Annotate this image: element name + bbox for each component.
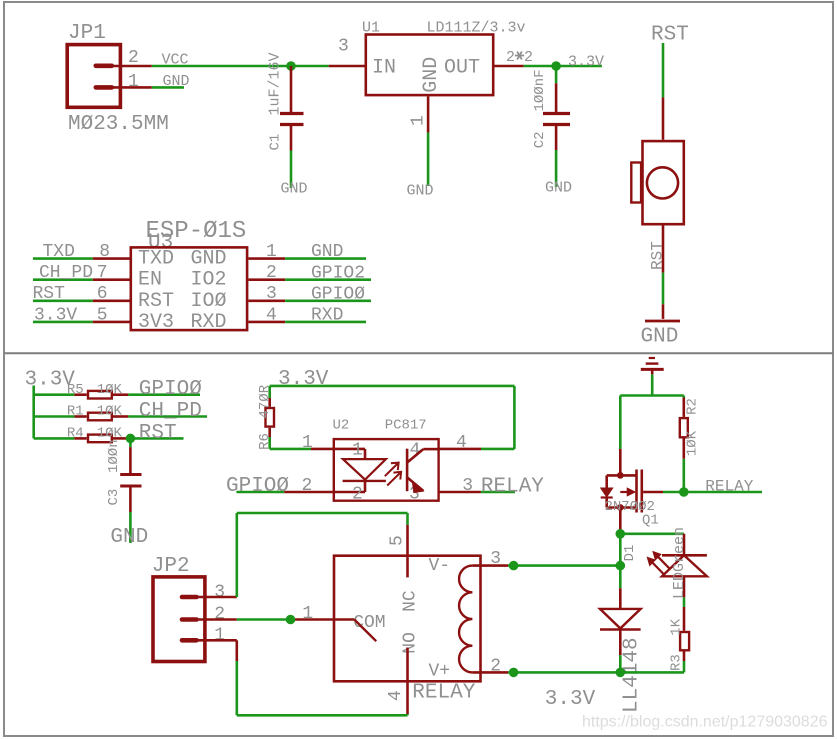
svg-text:RST: RST [33, 284, 66, 304]
wire U3 right pin 1 net GND [248, 257, 366, 260]
svg-text:D1: D1 [622, 545, 638, 562]
capacitor C1 [267, 52, 304, 150]
svg-text:1K: 1K [668, 618, 684, 635]
connector JP2 [152, 555, 205, 662]
svg-text:C1: C1 [268, 134, 284, 151]
pushbutton switch RST [631, 141, 684, 224]
U3 pin 1 number [266, 242, 277, 262]
wire Q1 source to LED column [620, 532, 684, 535]
wire JP2 pin3 to relay pin5 [197, 513, 408, 597]
svg-text:3.3V: 3.3V [278, 368, 329, 391]
svg-text:5: 5 [388, 535, 408, 546]
svg-text:JP1: JP1 [68, 22, 106, 45]
wire switch to GND [662, 226, 665, 319]
net label RST [139, 422, 177, 445]
net label RST top [651, 24, 689, 47]
wire RST to switch [662, 43, 665, 140]
net label GPIO0 at opto [226, 475, 289, 498]
svg-text:3.3V: 3.3V [545, 688, 596, 711]
supply GND under U1 [407, 183, 434, 200]
node JP2 pin2 junction [286, 615, 296, 625]
U3 pin 2 number [266, 263, 277, 283]
section divider line [4, 352, 833, 354]
net label 3.3V bottom [545, 688, 596, 711]
svg-text:NC: NC [401, 590, 421, 612]
led LED1 LEDGreen [647, 527, 707, 599]
svg-text:2: 2 [302, 476, 313, 496]
wire rail down to Q1 drain [619, 396, 622, 476]
U3 pin 6 number [97, 284, 108, 304]
svg-text:4: 4 [456, 433, 467, 453]
svg-text:1: 1 [302, 433, 313, 453]
svg-text:RST: RST [649, 241, 667, 270]
node 3.3V junction at C2 [551, 61, 561, 71]
net label GPIO2 [311, 263, 365, 283]
svg-text:GND: GND [545, 180, 572, 197]
svg-text:RST: RST [651, 24, 689, 47]
wire relay coil pin 3 (V-) [472, 564, 620, 567]
svg-text:GND: GND [407, 183, 434, 200]
svg-text:LEDGreen: LEDGreen [671, 527, 688, 599]
svg-text:RST: RST [138, 290, 174, 313]
net label CH_PD [139, 400, 202, 423]
svg-text:IO2: IO2 [191, 269, 227, 292]
U1 pin 3 number [338, 37, 349, 57]
capacitor C2 [532, 66, 570, 150]
wire earth to gate rail [620, 374, 684, 395]
svg-text:1ØK: 1ØK [685, 430, 701, 456]
wire VCC: JP1 pin2 to U1 IN [112, 65, 365, 68]
wire C2 to GND [555, 150, 558, 187]
svg-text:U2: U2 [333, 418, 350, 434]
svg-text:IOØ: IOØ [191, 290, 227, 313]
svg-text:GND: GND [110, 526, 148, 549]
wire U3 right pin 3 net GPIOØ [248, 299, 371, 302]
opto U2 pin 1 number [302, 433, 313, 453]
svg-text:3: 3 [214, 583, 225, 603]
svg-text:EN: EN [138, 269, 162, 292]
wire Q1 source down to D1 [619, 534, 622, 566]
svg-text:2: 2 [506, 49, 515, 66]
svg-text:R2: R2 [684, 398, 700, 415]
Q1 name [642, 513, 659, 529]
resistor R1 10K [34, 404, 129, 421]
supply GND under C3 [110, 526, 148, 549]
svg-text:CH_PD: CH_PD [39, 263, 93, 283]
wire U3 right pin 2 net GPIO2 [248, 278, 371, 281]
wire U3 right pin 4 net RXD [248, 321, 366, 324]
svg-text:2: 2 [524, 49, 533, 66]
svg-text:RELAY: RELAY [412, 682, 475, 705]
svg-text:RELAY: RELAY [705, 478, 753, 496]
svg-text:V-: V- [429, 556, 451, 576]
wire net GPIOØ [128, 393, 200, 396]
wire U3 left pin 6 net RST [33, 299, 130, 302]
svg-text:C3: C3 [106, 489, 122, 506]
U3 pin 8 number [99, 242, 110, 262]
wire JP2 pin1 to relay pin4 [197, 640, 408, 715]
net label 3.3V top [568, 54, 604, 71]
relay NC contact pin 5 [406, 513, 409, 577]
node RELAY junction [679, 487, 689, 497]
svg-text:https://blog.csdn.net/p1279030: https://blog.csdn.net/p1279030826 [582, 714, 828, 731]
svg-text:TXD: TXD [138, 248, 174, 271]
U2 phototransistor [407, 449, 439, 493]
svg-text:1ØØnF: 1ØØnF [532, 69, 548, 111]
svg-text:3: 3 [462, 476, 473, 496]
svg-text:GND: GND [420, 57, 443, 93]
svg-text:V+: V+ [429, 662, 451, 682]
net name RST rotated [649, 241, 667, 270]
svg-text:U1: U1 [362, 20, 380, 37]
svg-text:2: 2 [214, 605, 225, 625]
svg-text:2: 2 [490, 657, 501, 677]
svg-text:GPIO2: GPIO2 [311, 263, 365, 283]
svg-text:7: 7 [97, 263, 108, 283]
svg-text:JP2: JP2 [152, 555, 190, 578]
net label GPIOØ [311, 284, 365, 304]
svg-text:GND: GND [191, 248, 227, 271]
wire LED to R3 [683, 597, 686, 630]
capacitor C3 [106, 438, 142, 512]
wire U3 left pin 8 net TXD [33, 257, 130, 260]
svg-text:RST: RST [139, 422, 177, 445]
regulator U1 LD111Z/3.3v [362, 20, 526, 96]
diode D1 LL4148 [600, 545, 644, 713]
wire net GPIO0 to U2 pin 2 [236, 491, 332, 494]
svg-text:GND: GND [641, 326, 679, 349]
U2 LED emission arrows [385, 463, 401, 486]
wire net RELAY right [684, 491, 762, 494]
wire R3 to 3.3V rail [683, 661, 686, 672]
svg-text:47ØR: 47ØR [257, 384, 273, 418]
svg-text:Q1: Q1 [642, 513, 659, 529]
JP2 pin 2 number [214, 605, 225, 625]
svg-text:4: 4 [266, 305, 277, 325]
Q1 value 2N7002 [605, 499, 655, 515]
optocoupler U2 PC817 [333, 418, 439, 501]
wire U3 left pin 7 net CH_PD [33, 278, 130, 281]
wire R2 to RELAY node [682, 459, 685, 492]
svg-text:1: 1 [302, 604, 313, 624]
svg-text:GPIOØ: GPIOØ [139, 378, 202, 401]
svg-text:CH_PD: CH_PD [139, 400, 202, 423]
wire R6 to opto pin 1 [270, 437, 333, 449]
svg-text:R5: R5 [67, 382, 84, 398]
net label RELAY at Q1 [705, 478, 753, 496]
U2 pin 3 number [462, 476, 473, 496]
wire C3 to GND [129, 512, 132, 543]
U3 pin 4 number [266, 305, 277, 325]
net label 3.3V at opto rail [278, 368, 329, 391]
wire U2 pin 4 to rail [439, 448, 515, 451]
resistor R6 470R [257, 384, 274, 450]
transistor Q1 2N7002 [601, 470, 642, 534]
svg-text:3: 3 [338, 37, 349, 57]
wire 3.3V rail to opto pin4 [270, 386, 515, 449]
node junction R4/C3 [126, 434, 136, 444]
net label CH_PD [39, 263, 93, 283]
relay pin 1 number [302, 604, 313, 624]
net label TXD [43, 242, 75, 262]
svg-text:4: 4 [386, 690, 406, 701]
U2 inside pin name 2 [352, 485, 363, 505]
wire 3.3V vertical bottom-left [32, 386, 35, 439]
svg-text:2: 2 [352, 485, 363, 505]
relay pin 4 number [386, 690, 406, 701]
U2 pin 2 number [302, 476, 313, 496]
connector JP1 [67, 22, 169, 136]
wire D1 to 3.3V rail [619, 655, 622, 672]
svg-text:IN: IN [372, 57, 396, 80]
resistor R3 1K [668, 618, 689, 671]
wire JP2 pin2 to relay COM [197, 618, 291, 621]
node relay pin2 junction [509, 668, 519, 678]
svg-text:5: 5 [97, 305, 108, 325]
svg-text:OUT: OUT [444, 57, 480, 80]
U2 internal LED [333, 449, 386, 492]
relay pin 2 number [490, 657, 501, 677]
relay pin 5 number [388, 535, 408, 546]
svg-text:C2: C2 [532, 131, 548, 148]
svg-text:1uF/16V: 1uF/16V [267, 52, 284, 115]
wire U1 GND pin down [427, 96, 430, 186]
net label RXD [311, 306, 343, 326]
svg-text:MØ23.5MM: MØ23.5MM [68, 113, 169, 136]
svg-text:1ØK: 1ØK [97, 404, 123, 420]
svg-text:GPIOØ: GPIOØ [311, 284, 365, 304]
svg-text:3.3V: 3.3V [568, 54, 604, 71]
node D1 top junction [616, 561, 626, 571]
svg-text:3V3: 3V3 [138, 311, 174, 334]
earth ground symbol [641, 358, 664, 374]
net label RELAY at opto [481, 475, 544, 498]
node VCC junction at C1 [286, 61, 296, 71]
svg-text:3: 3 [490, 549, 501, 569]
U3 inside pin names [138, 248, 227, 334]
relay pin 3 number [490, 549, 501, 569]
U2 inside pin name 3 [409, 485, 420, 505]
node D1 bottom junction [616, 668, 626, 678]
relay K1 RELAY [334, 556, 481, 705]
svg-text:3: 3 [266, 284, 277, 304]
svg-text:LD111Z/3.3v: LD111Z/3.3v [427, 20, 526, 37]
svg-text:GND: GND [311, 242, 343, 262]
svg-text:R4: R4 [67, 426, 84, 442]
U1 pin 2*2 number [506, 49, 533, 66]
wire Q1 gate to net RELAY [643, 491, 684, 494]
net label VCC [162, 52, 189, 69]
JP2 pin 1 number [214, 626, 225, 646]
wire C1 to GND [290, 151, 293, 189]
net label RST [33, 284, 66, 304]
svg-text:1: 1 [128, 72, 139, 92]
svg-text:1ØK: 1ØK [97, 382, 123, 398]
net label 3.3V [34, 305, 77, 325]
svg-text:8: 8 [99, 242, 110, 262]
ground symbol GND below switch [641, 321, 681, 349]
wire net RST [127, 437, 184, 440]
wire GND stub at JP1 pin1 [112, 86, 184, 89]
U2 inside pin name 4 [410, 441, 421, 461]
supply GND under C2 [545, 180, 572, 197]
svg-text:6: 6 [97, 284, 108, 304]
svg-text:2: 2 [266, 263, 277, 283]
wire U2 pin 3 to net RELAY [439, 491, 515, 494]
wire U3 left pin 5 net 3.3V [33, 321, 130, 324]
svg-text:1ØK: 1ØK [97, 426, 123, 442]
svg-text:1: 1 [266, 242, 277, 262]
relay pin names [353, 556, 450, 682]
svg-text:3.3V: 3.3V [34, 305, 77, 325]
JP1 pin 2 number [128, 48, 139, 68]
relay coil [459, 566, 472, 673]
resistor R5 10K [34, 382, 129, 399]
svg-text:1ØØn: 1ØØn [106, 439, 122, 473]
net label GND at JP1 [163, 73, 190, 90]
resistor R2 10K [680, 396, 701, 459]
module U3 ESP-01S [131, 218, 247, 330]
wire 3.3V bottom rail [514, 671, 684, 674]
JP2 pin 3 number [214, 583, 225, 603]
U2 pin 4 number [456, 433, 467, 453]
net label GND [311, 242, 343, 262]
U2 inside pin name 1 [352, 441, 363, 461]
net label GPIOØ [139, 378, 202, 401]
svg-text:NO: NO [401, 632, 421, 654]
svg-text:R1: R1 [67, 404, 84, 420]
relay NO contact pin 4 [406, 648, 409, 716]
U3 pin 3 number [266, 284, 277, 304]
wire relay coil pin 2 (V+) [472, 671, 513, 674]
U1 pin 1 number (GND) [409, 115, 429, 126]
supply GND under C1 [281, 181, 308, 198]
U3 pin 7 number [97, 263, 108, 283]
svg-text:RELAY: RELAY [481, 475, 544, 498]
svg-text:1: 1 [352, 441, 363, 461]
svg-text:R3: R3 [668, 654, 684, 671]
svg-text:1: 1 [409, 115, 429, 126]
resistor R4 10K [34, 426, 127, 443]
node Q1 source junction [616, 529, 626, 539]
JP1 pin 1 number [128, 72, 139, 92]
svg-text:PC817: PC817 [385, 418, 427, 434]
svg-text:RXD: RXD [191, 311, 227, 334]
svg-text:RXD: RXD [311, 306, 343, 326]
relay COM lever [291, 620, 377, 642]
svg-text:TXD: TXD [43, 242, 75, 262]
net label 3.3V bottom-left [25, 369, 76, 392]
node relay pin3 junction [509, 561, 519, 571]
U3 pin 5 number [97, 305, 108, 325]
wire U1 OUT to 3.3V [493, 65, 602, 68]
svg-text:GND: GND [281, 181, 308, 198]
wire net CH_PD [128, 415, 207, 418]
svg-text:1: 1 [214, 626, 225, 646]
svg-text:GPIOØ: GPIOØ [226, 475, 289, 498]
watermark [582, 714, 828, 731]
